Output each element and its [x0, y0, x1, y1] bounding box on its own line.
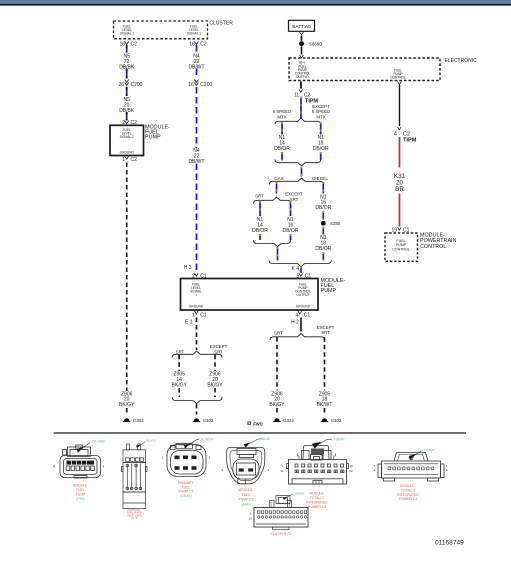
- svg-text:OUTPUT: OUTPUT: [296, 293, 309, 297]
- svg-text:OUTPUT: OUTPUT: [296, 75, 309, 79]
- connector view fuel pump module (side): [122, 442, 148, 509]
- pin 4 C1: [296, 311, 311, 319]
- svg-text:1: 1: [103, 464, 105, 468]
- svg-text:C2: C2: [131, 157, 138, 163]
- svg-text:EXCEPT: EXCEPT: [210, 344, 228, 349]
- svg-text:DB/OR: DB/OR: [315, 205, 331, 211]
- svg-text:BK/GY: BK/GY: [119, 402, 135, 408]
- svg-text:TIPM: TIPM: [403, 138, 417, 144]
- svg-text:CONTROL: CONTROL: [420, 244, 446, 250]
- connector view fuel pump C2 (shield face): [227, 439, 265, 484]
- pin 19 C1: [391, 227, 409, 233]
- label Z906 20 BK/GY (right): [269, 391, 285, 408]
- merge 6spd branches: [275, 160, 321, 166]
- svg-text:PUMP: PUMP: [321, 288, 337, 294]
- svg-text:1: 1: [192, 313, 195, 319]
- svg-text:MTX: MTX: [277, 115, 286, 120]
- svg-text:DB/OR: DB/OR: [313, 146, 329, 152]
- merge to G302: [172, 397, 222, 403]
- svg-text:16: 16: [119, 42, 125, 48]
- svg-text:GAS: GAS: [274, 176, 283, 181]
- svg-text:DK GRAY: DK GRAY: [200, 438, 215, 442]
- connector view TIPM C1: [378, 451, 444, 481]
- svg-text:SIGNAL 1: SIGNAL 1: [187, 32, 201, 36]
- svg-text:6 SPEED: 6 SPEED: [273, 109, 292, 114]
- svg-text:DB/WT: DB/WT: [188, 159, 204, 165]
- svg-text:GROUND: GROUND: [296, 305, 311, 309]
- svg-text:C2: C2: [200, 42, 207, 48]
- label N5 20 DB/BK: [119, 97, 135, 114]
- svg-text:PUMP C2: PUMP C2: [238, 498, 253, 502]
- fuel level sensor box: [110, 125, 144, 155]
- svg-text:1: 1: [195, 293, 197, 297]
- ground G303: [123, 418, 144, 423]
- wire Z906 SRT branch: [276, 337, 278, 414]
- label module fuel pump (center): [321, 278, 346, 294]
- svg-text:4: 4: [296, 313, 299, 319]
- merge SRT branches: [254, 240, 291, 246]
- ground G302 (right): [321, 418, 342, 423]
- svg-text:LT GRAY: LT GRAY: [332, 438, 346, 442]
- svg-text:CONTROL: CONTROL: [390, 75, 406, 79]
- label Z906 20 BK/GY: [207, 372, 223, 389]
- svg-text:(AME): (AME): [241, 502, 251, 506]
- svg-text:H 3: H 3: [184, 265, 192, 271]
- svg-text:01168749: 01168749: [435, 539, 464, 546]
- split SRT / EXCEPT SRT (E1): [172, 344, 227, 358]
- svg-text:G302: G302: [331, 418, 342, 423]
- svg-text:MODULE-: MODULE-: [73, 484, 88, 488]
- svg-text:BLUE: BLUE: [262, 437, 270, 441]
- wire to pin 5 C1: [300, 267, 302, 273]
- label Z905 18 BK/WT: [317, 391, 333, 408]
- wire TIPM right output: [398, 82, 402, 127]
- svg-text:G302: G302: [203, 418, 214, 423]
- svg-text:13: 13: [249, 517, 253, 521]
- wire N5 DB/BK segments: [126, 45, 128, 121]
- wire N4 DB/WT: [196, 45, 198, 272]
- svg-text:BK/WT: BK/WT: [317, 402, 333, 408]
- svg-text:C2: C2: [131, 42, 138, 48]
- connector 4 C2 TIPM: [394, 127, 417, 144]
- connector view MODULE-FUEL PUMP (C1 face): [60, 443, 101, 479]
- label N4 22 DB/WT (second): [188, 148, 204, 165]
- svg-text:10: 10: [350, 464, 354, 468]
- splice S280: [321, 221, 341, 226]
- svg-text:BR: BR: [395, 186, 404, 193]
- wire N1 14 DB/OR (SRT): [252, 201, 268, 240]
- svg-text:G303: G303: [133, 418, 144, 423]
- wire to G302: [196, 404, 198, 415]
- svg-text:DB/OR: DB/OR: [315, 246, 331, 252]
- pin 1 C2: [122, 156, 137, 163]
- svg-text:DB/BK: DB/BK: [119, 65, 135, 71]
- svg-text:PUMP: PUMP: [145, 135, 161, 141]
- svg-text:BATT A0: BATT A0: [292, 24, 311, 29]
- svg-text:DB/OR: DB/OR: [274, 146, 290, 152]
- TIPM dashed box: [289, 58, 440, 81]
- svg-text:POWER C2: POWER C2: [308, 505, 326, 509]
- svg-text:EXCEPT: EXCEPT: [317, 325, 335, 330]
- label N4 22 DB/WT: [188, 54, 204, 71]
- svg-text:DIESEL: DIESEL: [312, 176, 328, 181]
- cluster box: [114, 21, 234, 39]
- svg-text:SRT: SRT: [176, 349, 185, 354]
- split GAS / DIESEL: [270, 176, 329, 185]
- connector view fuel pump (round face): [167, 440, 206, 477]
- svg-text:BLACK: BLACK: [147, 439, 157, 443]
- connector 16 C200: [188, 80, 212, 89]
- header bar: [0, 0, 511, 4]
- split 6 SPEED MTX: [273, 104, 331, 125]
- wire Z905 EXCEPT SRT branch: [324, 337, 326, 414]
- wire BATT to splice: [301, 36, 303, 42]
- wire below pin 1 C1: [196, 318, 198, 351]
- svg-text:POWER C1: POWER C1: [399, 497, 417, 501]
- svg-text:GREEN: GREEN: [294, 492, 305, 496]
- svg-text:MODULE-: MODULE-: [309, 492, 325, 496]
- svg-text:EXCEPT: EXCEPT: [312, 104, 330, 109]
- svg-text:GROUND: GROUND: [189, 305, 204, 309]
- svg-text:G322: G322: [283, 418, 294, 423]
- svg-text:CLUSTER: CLUSTER: [210, 21, 234, 27]
- svg-text:DB/WT: DB/WT: [188, 65, 204, 71]
- pin 5 C1: [297, 273, 312, 279]
- svg-text:C1: C1: [200, 313, 207, 319]
- label N5 22 DB/BK: [119, 54, 135, 71]
- svg-text:CONTROL: CONTROL: [392, 247, 410, 251]
- svg-text:16: 16: [189, 42, 195, 48]
- wire below pin 4 C1: [300, 318, 302, 332]
- svg-text:SRT: SRT: [214, 349, 223, 354]
- powertrain control module dashed box: [385, 233, 418, 261]
- svg-text:C200: C200: [200, 82, 212, 88]
- wire splice to TIPM: [301, 47, 303, 55]
- wire GAS: [276, 182, 278, 194]
- svg-text:GROUND: GROUND: [120, 151, 135, 155]
- svg-text:MTX: MTX: [316, 115, 325, 120]
- svg-text:SRT: SRT: [255, 193, 264, 198]
- svg-text:BK/GY: BK/GY: [172, 383, 188, 389]
- wire merged GAS: [277, 247, 279, 261]
- svg-text:S280: S280: [330, 221, 341, 226]
- module fuel pump box (center): [181, 279, 319, 311]
- svg-text:(GRAY): (GRAY): [180, 494, 192, 498]
- svg-text:DK GRAY: DK GRAY: [92, 440, 107, 444]
- split SRT / EXCEPT SRT (H2): [270, 325, 335, 340]
- label module powertrain control: [420, 233, 457, 250]
- label module fuel pump (left): [145, 125, 170, 141]
- svg-text:ELECTRONIC: ELECTRONIC: [445, 58, 478, 64]
- wire Z906 BK/GY (left ground wire): [126, 163, 128, 415]
- svg-text:C200: C200: [131, 82, 143, 88]
- wire DIESEL N1 16 DB/OR: [315, 182, 331, 220]
- svg-text:H 2: H 2: [291, 320, 299, 326]
- wire K31 BR (red) upper: [399, 137, 401, 168]
- pin 16 C2 right: [189, 42, 207, 48]
- FWD marker: [248, 421, 263, 426]
- pin 2 C2: [122, 120, 137, 126]
- wire N1 18 DB/OR (diesel lower): [315, 227, 331, 261]
- wire N1 14 DB/OR (6spd): [274, 122, 290, 161]
- svg-text:FUEL: FUEL: [242, 493, 251, 497]
- svg-text:11: 11: [281, 469, 284, 473]
- wire N1 18 DB/OR (except 6spd): [313, 122, 329, 161]
- svg-text:E 1: E 1: [185, 320, 193, 326]
- svg-text:BK/GY: BK/GY: [269, 402, 285, 408]
- svg-text:INTEGRATED: INTEGRATED: [306, 501, 328, 505]
- merge GAS/DIESEL to pin 5: [269, 260, 331, 266]
- svg-text:(PK6): (PK6): [76, 497, 84, 501]
- svg-text:MODULE-: MODULE-: [238, 488, 254, 492]
- splice S8680: [299, 41, 322, 46]
- svg-text:DB/BK: DB/BK: [119, 108, 135, 114]
- svg-text:SRT: SRT: [321, 330, 330, 335]
- svg-text:5: 5: [297, 274, 300, 280]
- connector view CLUSTER C2: [254, 494, 308, 530]
- svg-text:BK/GY: BK/GY: [207, 383, 223, 389]
- svg-text:K 4: K 4: [291, 266, 299, 272]
- svg-text:SIGNAL 2: SIGNAL 2: [120, 32, 134, 36]
- svg-text:C178: C178: [131, 516, 138, 520]
- svg-text:4: 4: [394, 132, 397, 138]
- label K31 20 BR: [394, 173, 406, 193]
- wire DB/OR from TIPM: [300, 97, 302, 119]
- svg-text:EXCEPT: EXCEPT: [285, 192, 303, 197]
- svg-text:11: 11: [294, 93, 299, 99]
- separator line: [54, 432, 466, 434]
- svg-text:SRT: SRT: [274, 331, 283, 336]
- svg-text:DB/OR: DB/OR: [252, 228, 268, 234]
- connector 26 C200: [118, 80, 142, 89]
- wire K31 BR (red) lower: [399, 194, 401, 227]
- svg-text:S8680: S8680: [309, 42, 322, 47]
- svg-text:SIGNAL 2: SIGNAL 2: [120, 135, 134, 139]
- wire merged: [301, 167, 303, 177]
- svg-text:6 SPEED: 6 SPEED: [312, 109, 331, 114]
- svg-text:4: 4: [53, 464, 55, 468]
- svg-text:LT GRAY: LT GRAY: [422, 449, 436, 453]
- wire Z906 EXCEPT SRT branch: [214, 355, 216, 397]
- svg-text:FUEL: FUEL: [76, 488, 85, 492]
- svg-text:CLUSTER C2: CLUSTER C2: [270, 532, 291, 536]
- svg-text:PUMP: PUMP: [76, 493, 86, 497]
- pin 1 C1: [192, 311, 207, 319]
- svg-text:DB/OR: DB/OR: [283, 228, 299, 234]
- wire N1 16 DB/OR (EXCEPT SRT): [283, 201, 299, 240]
- label Z906 20 BK/GY: [119, 391, 135, 408]
- pin 16 C2 left: [119, 42, 137, 48]
- connector view TIPM C2: [287, 439, 349, 484]
- svg-text:C1: C1: [304, 313, 311, 319]
- ground G322: [273, 418, 294, 423]
- svg-text:FWD: FWD: [253, 421, 263, 426]
- svg-text:16: 16: [188, 82, 194, 88]
- svg-text:1: 1: [122, 157, 125, 163]
- split SRT / EXCEPT SRT (GAS): [254, 192, 304, 204]
- svg-text:26: 26: [118, 82, 124, 88]
- ground G302 (center): [193, 418, 214, 423]
- wire Z905 SRT branch: [178, 355, 180, 397]
- svg-text:22: 22: [350, 469, 354, 473]
- label Z905 14 BK/GY: [172, 372, 188, 389]
- svg-text:TOTALLY: TOTALLY: [310, 496, 325, 500]
- svg-text:C1: C1: [305, 274, 312, 280]
- pin 11 C2 TIPM: [294, 82, 319, 105]
- battery feed BATT A0: [289, 20, 315, 31]
- connector arrow below BATT: [300, 32, 304, 35]
- pin 2 C1: [192, 273, 207, 279]
